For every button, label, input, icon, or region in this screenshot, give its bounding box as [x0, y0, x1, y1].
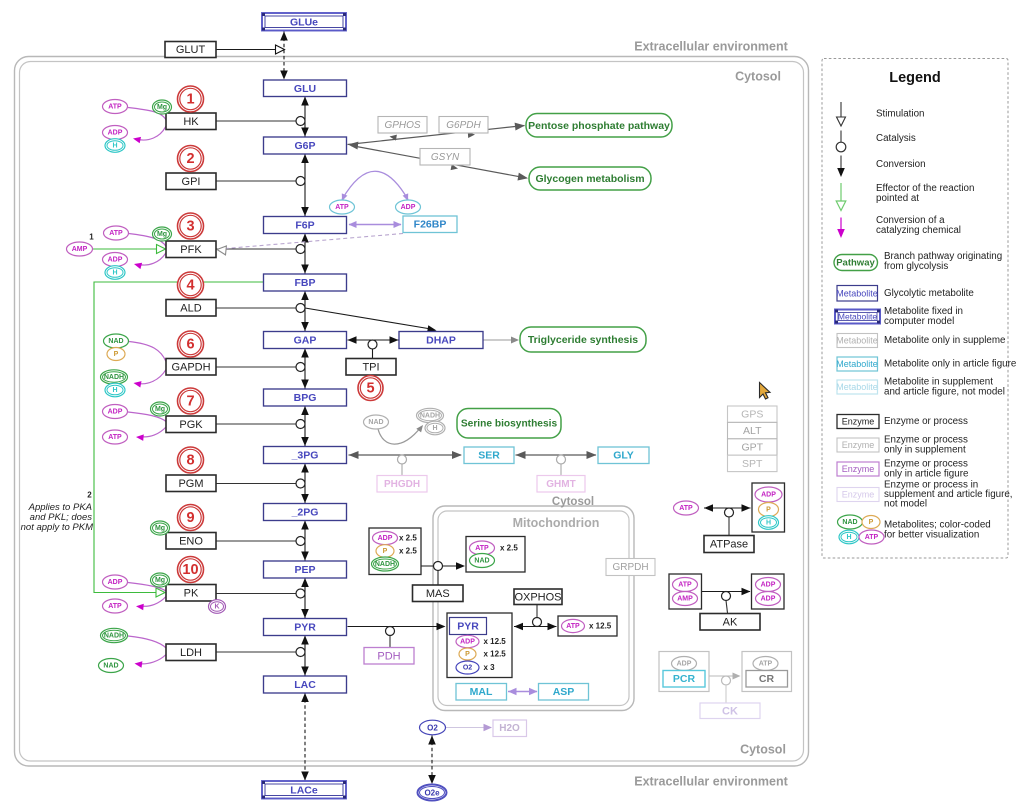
legend enzyme supplement box — [837, 438, 879, 452]
svg-text:AK: AK — [723, 616, 738, 628]
chemical Mg (PFK) — [153, 227, 172, 241]
enzyme ENO — [166, 533, 216, 550]
svg-text:ATP: ATP — [759, 661, 773, 668]
svg-text:Cytosol: Cytosol — [735, 70, 781, 84]
wire enzyme connector ENO — [216, 540, 296, 542]
svg-text:PGK: PGK — [179, 419, 203, 431]
chemical ATP (PK) — [103, 599, 128, 613]
metabolite _2PG — [264, 504, 347, 521]
chemical H (HK) — [105, 139, 125, 153]
svg-text:ATP: ATP — [109, 230, 123, 237]
chemical H (PHGDH, gray) — [425, 421, 445, 435]
step number 8 (red circle) — [178, 447, 204, 473]
wire cofactor in-curve GAPDH — [129, 342, 166, 362]
svg-text:ASP: ASP — [553, 686, 575, 698]
metabolite GLU — [264, 80, 347, 97]
svg-text:SER: SER — [478, 450, 500, 462]
chemical NAD (GAPDH) — [104, 334, 129, 348]
enzyme PGM — [166, 475, 216, 492]
metabolite BPG — [264, 389, 347, 406]
arrowhead into LACe — [301, 772, 309, 781]
svg-text:Metabolite: Metabolite — [838, 312, 877, 322]
legend pathway oval — [834, 255, 878, 271]
wire CK connector — [725, 685, 727, 703]
legend metabolite fixed box — [835, 310, 880, 324]
wire ATPase connector — [728, 517, 730, 535]
svg-text:SPT: SPT — [742, 458, 763, 470]
svg-text:GAP: GAP — [294, 335, 317, 347]
svg-text:P: P — [114, 351, 119, 358]
chemical NADH (PHGDH, gray) — [417, 408, 444, 422]
svg-text:4: 4 — [186, 278, 194, 294]
metabolite ASP — [539, 684, 589, 701]
svg-text:GPT: GPT — [741, 442, 763, 454]
legend label enzyme both — [884, 479, 1013, 509]
chemical ADP (HK) — [103, 126, 128, 140]
catalysis circle OXPHOS — [533, 618, 542, 627]
metabolite _3PG — [264, 447, 347, 464]
svg-text:Enzyme: Enzyme — [842, 464, 875, 474]
svg-text:H: H — [112, 143, 117, 150]
arrowhead into O2e — [428, 775, 436, 784]
svg-text:MAS: MAS — [426, 588, 450, 600]
svg-text:H: H — [432, 425, 437, 432]
wire MAL-ASP reversible (purple) — [508, 688, 538, 695]
svg-text:K: K — [214, 604, 219, 611]
legend enzyme article box — [837, 462, 879, 476]
metabolite SER — [464, 447, 514, 464]
svg-text:GLU: GLU — [294, 83, 316, 95]
step number 2 (red circle) — [178, 146, 204, 172]
wire cofactor in-curve PGK — [128, 412, 166, 422]
legend label glycolytic metabolite — [884, 288, 974, 299]
chemical O2e (fixed) — [418, 785, 447, 801]
svg-text:NAD: NAD — [474, 558, 489, 565]
svg-text:Mitochondrion: Mitochondrion — [513, 516, 600, 530]
legend icon conversion — [837, 156, 845, 178]
svg-text:CK: CK — [722, 705, 738, 717]
svg-text:Cytosol: Cytosol — [740, 743, 786, 757]
svg-text:NAD: NAD — [842, 519, 857, 526]
svg-text:PK: PK — [184, 587, 199, 599]
wire cofactor in-curve LDH — [128, 636, 166, 648]
wire cofactor in-curve PFK — [129, 234, 167, 247]
wire PYR to mitochondrial pyruvate — [348, 626, 441, 628]
chemical Mg (PGK) — [151, 402, 170, 416]
svg-text:GSYN: GSYN — [431, 152, 460, 163]
wire NAD-NADH cofactor curve (gray) — [378, 425, 423, 444]
metabolite GLUe (fixed, double border) — [262, 13, 346, 31]
svg-text:for better visualization: for better visualization — [884, 529, 979, 540]
catalysis circle ALD — [296, 304, 305, 313]
enzyme OXPHOS — [514, 589, 562, 605]
wire AMP effector to PFK (green) — [93, 248, 157, 250]
svg-text:O2: O2 — [427, 724, 438, 733]
enzyme GRPDH — [606, 559, 655, 576]
effector arrowhead AMP-PFK — [157, 245, 166, 254]
svg-text:ADP: ADP — [108, 409, 123, 416]
svg-text:Stimulation: Stimulation — [876, 109, 924, 120]
catalysis circle ATPase — [725, 508, 734, 517]
svg-text:AMP: AMP — [677, 596, 693, 603]
wire reaction segment (HK step) — [301, 97, 309, 137]
svg-text:pointed at: pointed at — [876, 193, 919, 204]
wire enzyme connector LDH — [216, 651, 296, 653]
wire TPI connector — [372, 349, 374, 358]
svg-text:PFK: PFK — [180, 244, 202, 256]
svg-text:H: H — [846, 534, 851, 541]
metabolite G6P — [264, 137, 347, 154]
catalysis circle PK — [296, 589, 305, 598]
mitochondrion compartment inner border — [438, 511, 629, 706]
enzyme SPT — [728, 455, 778, 471]
enzyme HK — [166, 113, 216, 130]
enzyme ALD — [166, 300, 216, 317]
metabolite PYR — [264, 619, 347, 636]
wire enzyme connector GAPDH — [216, 366, 296, 368]
metabolite DHAP — [399, 332, 483, 349]
svg-text:ADP: ADP — [761, 596, 776, 603]
svg-text:Glycolytic metabolite: Glycolytic metabolite — [884, 288, 974, 299]
svg-text:6: 6 — [186, 337, 194, 353]
svg-text:ADP: ADP — [677, 661, 692, 668]
wire reaction segment (PK step) — [301, 578, 309, 618]
legend label catalysis — [876, 133, 916, 144]
svg-text:G6P: G6P — [294, 140, 315, 152]
catalysis circle TPI — [368, 340, 377, 349]
stimulation arrowhead GLUT — [276, 45, 285, 54]
enzyme GSYN — [420, 149, 470, 166]
svg-text:CR: CR — [759, 673, 775, 685]
svg-text:ADP: ADP — [108, 257, 123, 264]
chemical AMP (PFK) — [67, 242, 93, 256]
catalysis circle MAS — [434, 562, 443, 571]
svg-text:PHGDH: PHGDH — [384, 479, 420, 490]
stoichiometry box ADP/P/NADH (cytosolic side) — [369, 528, 421, 575]
chemical P (GAPDH) — [107, 348, 125, 361]
wire cofactor out-curve LDH — [135, 655, 167, 668]
svg-text:ADP: ADP — [108, 130, 123, 137]
direction marker GSYN — [451, 164, 458, 170]
enzyme PK — [166, 585, 216, 602]
svg-text:Catalysis: Catalysis — [876, 133, 916, 144]
legend metabolite supplement box — [836, 334, 878, 348]
svg-text:PGM: PGM — [178, 478, 203, 490]
svg-text:Metabolite: Metabolite — [836, 382, 878, 392]
chemical ADP (PGK) — [103, 405, 128, 419]
svg-text:x 2.5: x 2.5 — [399, 534, 417, 543]
wire enzyme connector PGK — [216, 423, 296, 425]
svg-text:GPI: GPI — [182, 176, 201, 188]
svg-text:P: P — [465, 651, 470, 658]
svg-text:ADP: ADP — [378, 535, 393, 542]
svg-text:ATP: ATP — [475, 545, 489, 552]
svg-text:GHMT: GHMT — [546, 479, 575, 490]
wire F6P-F26BP reversible (purple) — [349, 221, 402, 228]
chemical NAD (PHGDH, gray) — [364, 415, 389, 429]
chemical Mg (PK) — [151, 573, 170, 587]
enzyme GPS — [728, 406, 778, 422]
metabolite LAC — [264, 676, 347, 693]
arrowhead into H2O — [484, 724, 493, 731]
wire reaction segment (PFK step) — [301, 234, 309, 274]
svg-text:O2: O2 — [463, 665, 472, 672]
wire CK reaction line (gray) — [709, 673, 741, 680]
svg-text:GRPDH: GRPDH — [612, 562, 648, 573]
chemical ADP (PFK2) — [396, 200, 421, 214]
enzyme TPI — [346, 359, 396, 376]
svg-text:DHAP: DHAP — [426, 335, 456, 347]
stoichiometry box ADP/P/H (ATPase) — [752, 483, 785, 532]
svg-text:9: 9 — [186, 510, 194, 526]
svg-text:3: 3 — [186, 219, 194, 235]
legend enzyme box — [837, 415, 879, 429]
wire cofactor in-curve HK — [128, 108, 166, 121]
wire reaction segment (LDH step) — [301, 636, 309, 676]
wire PDH connector — [389, 636, 391, 648]
catalysis circle ENO — [296, 537, 305, 546]
metabolite MAL — [456, 684, 507, 701]
wire GLUe-GLU dashed transport — [283, 32, 285, 80]
stoichiometry box CR — [742, 652, 792, 692]
svg-text:NADH: NADH — [375, 561, 395, 568]
svg-text:G6PDH: G6PDH — [446, 120, 481, 131]
svg-text:Cytosol: Cytosol — [552, 496, 594, 508]
svg-text:P: P — [766, 507, 771, 514]
wire AK reaction line — [701, 588, 751, 595]
svg-text:ATP: ATP — [679, 505, 693, 512]
svg-text:LDH: LDH — [180, 647, 202, 659]
enzyme MAS — [413, 585, 464, 602]
legend label metabolite supplement — [884, 335, 1006, 346]
legend label stimulation — [876, 109, 924, 120]
svg-text:ALD: ALD — [180, 302, 201, 314]
wire reaction segment (PGK step) — [301, 406, 309, 446]
stoichiometry box ATP/AMP (AK) — [669, 574, 702, 609]
wire OXPHOS connector — [536, 605, 538, 618]
svg-text:Enzyme: Enzyme — [842, 440, 875, 450]
chemical NADH (GAPDH) — [101, 370, 128, 384]
enzyme ATPase — [704, 536, 754, 553]
svg-text:from glycolysis: from glycolysis — [884, 261, 948, 272]
svg-text:Conversion: Conversion — [876, 159, 926, 170]
step number 4 (red circle) — [178, 272, 204, 298]
chemical H (GAPDH) — [105, 383, 125, 397]
svg-text:x 12.5: x 12.5 — [484, 650, 507, 659]
svg-text:not model: not model — [884, 499, 927, 510]
metabolite F26BP — [403, 216, 457, 233]
svg-text:NAD: NAD — [103, 663, 118, 670]
catalysis circle GHMT — [557, 455, 566, 464]
wire reaction segment (GPI step) — [301, 154, 309, 216]
svg-text:PCR: PCR — [673, 673, 696, 685]
legend label metabolite both — [884, 377, 1005, 398]
svg-text:5: 5 — [366, 381, 374, 397]
legend icon stimulation — [837, 102, 846, 126]
svg-text:OXPHOS: OXPHOS — [514, 591, 561, 603]
legend label chemicals — [884, 520, 991, 541]
svg-text:NADH: NADH — [104, 374, 124, 381]
metabolite PEP — [264, 561, 347, 578]
wire enzyme connector ALD — [216, 307, 296, 309]
svg-text:Mg: Mg — [155, 406, 165, 413]
svg-text:H: H — [112, 387, 117, 394]
metabolite H2O — [493, 720, 527, 737]
svg-text:LACe: LACe — [290, 784, 318, 796]
pathway box Pentose phosphate pathway — [526, 114, 672, 138]
svg-text:F26BP: F26BP — [414, 219, 447, 231]
chemical Mg (HK) — [153, 100, 172, 114]
svg-text:FBP: FBP — [295, 277, 316, 289]
wire ATP-ADP conversion arc — [342, 171, 408, 201]
metabolite GLY — [598, 447, 649, 464]
arrowhead into mito PYR box — [437, 623, 446, 630]
svg-text:P: P — [869, 519, 874, 526]
enzyme GLUT — [165, 42, 216, 58]
svg-text:NAD: NAD — [368, 419, 383, 426]
enzyme GPI — [166, 173, 216, 190]
chemical K (PK) — [209, 600, 226, 614]
arrowhead into O2 — [428, 736, 436, 745]
svg-text:x 3: x 3 — [484, 663, 496, 672]
legend label metabolite article — [884, 359, 1017, 370]
svg-text:GLY: GLY — [613, 450, 634, 462]
wire O2 to H2O — [446, 727, 488, 729]
wire SER-GLY reversible — [516, 451, 597, 459]
svg-text:Triglyceride synthesis: Triglyceride synthesis — [528, 334, 638, 346]
wire cofactor out-curve PFK — [134, 253, 166, 270]
enzyme AK — [700, 614, 760, 631]
chemical ATP (PFK) — [104, 226, 129, 240]
svg-text:Glycogen metabolism: Glycogen metabolism — [535, 173, 644, 185]
legend chemicals color coded — [838, 515, 885, 544]
legend icon effector — [836, 183, 846, 211]
svg-text:ATP: ATP — [566, 623, 580, 630]
metabolite F6P — [264, 217, 347, 234]
wire _3PG-SER reversible — [349, 451, 463, 459]
mitochondrion compartment outer border — [433, 506, 634, 711]
wire OXPHOS reaction line — [514, 623, 557, 630]
arrowhead into glycogen box — [518, 173, 529, 181]
legend label pathway — [884, 251, 1002, 272]
arrowhead into pentose box — [515, 123, 525, 131]
svg-text:Legend: Legend — [889, 70, 941, 86]
wire enzyme connector PGM — [216, 483, 296, 485]
step number 10 (red circle) — [178, 557, 204, 583]
svg-text:Enzyme or process: Enzyme or process — [884, 416, 968, 427]
svg-text:ATP: ATP — [108, 434, 122, 441]
svg-text:Metabolite: Metabolite — [836, 289, 878, 299]
chemical O2 (cytosol) — [420, 720, 446, 735]
svg-text:ADP: ADP — [460, 639, 475, 646]
svg-text:x 2.5: x 2.5 — [399, 547, 417, 556]
chemical NADH (LDH) — [101, 628, 128, 642]
enzyme GPHOS — [378, 117, 427, 134]
svg-text:Mg: Mg — [157, 104, 167, 111]
svg-text:AMP: AMP — [72, 246, 88, 253]
catalysis circle LDH — [296, 648, 305, 657]
svg-text:Metabolite only in suppleme: Metabolite only in suppleme — [884, 335, 1006, 346]
wire GHMT connector — [560, 464, 562, 475]
svg-text:H: H — [112, 270, 117, 277]
catalysis circle PFK — [296, 245, 305, 254]
wire cofactor in-curve PK — [128, 583, 166, 592]
wire reaction segment (PGM step) — [301, 464, 309, 504]
chemical ADP (PK) — [103, 575, 128, 589]
step number 7 (red circle) — [178, 388, 204, 414]
svg-text:GPHOS: GPHOS — [384, 120, 420, 131]
svg-text:PEP: PEP — [294, 564, 315, 576]
svg-text:GLUe: GLUe — [290, 16, 318, 28]
svg-text:x 12.5: x 12.5 — [589, 622, 612, 631]
svg-text:1: 1 — [89, 233, 94, 242]
svg-text:HK: HK — [183, 116, 199, 128]
wire O2-O2e dashed transport — [431, 736, 433, 785]
step number 3 (red circle) — [178, 213, 204, 239]
svg-text:Mg: Mg — [155, 525, 165, 532]
effector arrowhead FBP-PK — [156, 588, 165, 597]
svg-text:NADH: NADH — [104, 633, 124, 640]
svg-text:ATP: ATP — [108, 603, 122, 610]
step number 5 (red circle) — [358, 376, 383, 401]
legend icon conversion of catalyzing chemical — [837, 218, 845, 239]
legend metabolite supplement+article box — [836, 380, 878, 394]
chemical ATP (PFK2) — [330, 200, 355, 214]
catalysis circle AK — [722, 592, 731, 601]
direction marker GPHOS — [390, 135, 397, 141]
svg-text:_3PG: _3PG — [291, 450, 319, 462]
svg-text:MAL: MAL — [470, 686, 493, 698]
svg-text:Extracellular environment: Extracellular environment — [634, 40, 788, 54]
arrowhead into GLU — [280, 71, 288, 80]
enzyme G6PDH — [439, 117, 488, 134]
catalysis circle PDH — [386, 627, 395, 636]
wire MAS reaction line — [421, 562, 465, 570]
svg-text:x 12.5: x 12.5 — [484, 637, 507, 646]
svg-text:F6P: F6P — [295, 220, 314, 232]
legend label conversion catalyzing — [876, 215, 961, 236]
catalysis circle CK — [722, 676, 731, 685]
svg-text:Mg: Mg — [157, 231, 167, 238]
arrowhead into G6P — [348, 142, 358, 150]
wire enzyme connector PK — [216, 593, 296, 595]
svg-text:H2O: H2O — [499, 723, 520, 734]
svg-text:only in supplement: only in supplement — [884, 444, 966, 455]
wire G6P to glycogen metabolism — [351, 146, 527, 179]
stoichiometry box ADP/ADP (AK) — [752, 574, 785, 609]
svg-text:catalyzing chemical: catalyzing chemical — [876, 225, 961, 236]
wire ALD to DHAP diagonal — [305, 308, 431, 329]
legend label enzyme article — [884, 459, 969, 480]
pathway box Serine biosynthesis — [457, 409, 561, 439]
direction marker G6PDH — [468, 132, 475, 138]
svg-text:Extracellular environment: Extracellular environment — [634, 775, 788, 789]
wire reaction segment (ALD step) — [301, 291, 309, 331]
arrowhead into GLUe — [280, 32, 288, 41]
svg-text:Mg: Mg — [155, 577, 165, 584]
wire cofactor out-curve HK — [133, 126, 166, 143]
enzyme CK — [700, 703, 760, 719]
svg-text:ALT: ALT — [743, 425, 762, 437]
wire cofactor out-curve PGK — [136, 427, 166, 441]
enzyme GHMT — [537, 476, 585, 493]
enzyme GPT — [728, 439, 778, 455]
svg-text:ADP: ADP — [401, 204, 416, 211]
wire F26BP stimulation of PFK (dashed) — [226, 234, 403, 249]
svg-text:PYR: PYR — [457, 621, 479, 633]
svg-text:GAPDH: GAPDH — [171, 361, 210, 373]
svg-text:Metabolite: Metabolite — [836, 336, 878, 346]
